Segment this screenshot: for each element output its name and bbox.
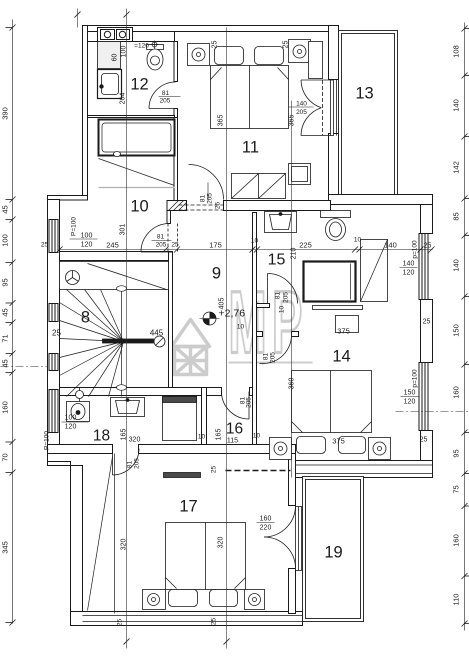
nightstand room17 right bbox=[245, 590, 265, 610]
door D11 threshold dashed bbox=[179, 204, 224, 206]
svg-text:P=100: P=100 bbox=[71, 217, 78, 236]
wall landing top bbox=[60, 252, 173, 261]
wall room17 east bbox=[289, 454, 296, 506]
big diagonal door room17 bbox=[88, 457, 113, 611]
ticks dim left bbox=[6, 25, 16, 626]
middle chain labels bbox=[106, 237, 397, 250]
wall east wing bottom bbox=[296, 461, 433, 478]
right chain labels bbox=[452, 45, 461, 605]
wall top main bbox=[83, 26, 339, 32]
svg-text:225: 225 bbox=[299, 241, 312, 250]
closet top right room11 bbox=[309, 42, 323, 79]
svg-text:140: 140 bbox=[384, 241, 397, 250]
box 375 room14 bbox=[336, 316, 359, 333]
sink room12 bbox=[98, 70, 122, 99]
wall left lower room17 bbox=[71, 466, 83, 616]
svg-text:345: 345 bbox=[1, 541, 10, 554]
svg-text:100: 100 bbox=[81, 233, 93, 240]
terrace 19 border bbox=[303, 477, 364, 622]
svg-text:25: 25 bbox=[52, 329, 61, 338]
wall step bottom-left bbox=[48, 454, 71, 466]
tv cabinet room14 bbox=[304, 262, 356, 302]
pillow room17 right bbox=[210, 590, 238, 607]
svg-text:8: 8 bbox=[81, 309, 90, 327]
ticks dim right bbox=[462, 26, 469, 627]
extension top x77 bbox=[77, 9, 79, 28]
svg-text:445: 445 bbox=[150, 329, 164, 338]
svg-text:220: 220 bbox=[260, 525, 272, 532]
left chain labels bbox=[1, 107, 10, 554]
nightstand room17 left bbox=[143, 590, 166, 610]
wall bottom room17 bbox=[71, 612, 303, 626]
toilet room18 bbox=[67, 402, 90, 422]
window W1 left bbox=[49, 220, 58, 253]
svg-text:10: 10 bbox=[237, 324, 245, 331]
svg-text:120: 120 bbox=[404, 399, 416, 406]
wall room17 top bbox=[48, 445, 113, 454]
svg-text:301: 301 bbox=[120, 224, 127, 236]
wall 9/14 stubs bbox=[257, 332, 263, 337]
door D17 terrace double arcs bbox=[264, 506, 296, 538]
door D14 arc bbox=[260, 333, 292, 364]
toilet room15 bbox=[321, 211, 351, 241]
bed room14 bbox=[292, 371, 372, 433]
flue block bbox=[98, 28, 133, 42]
svg-text:60: 60 bbox=[112, 54, 119, 62]
svg-text:142: 142 bbox=[452, 161, 461, 174]
dashdot section left bbox=[1, 366, 48, 368]
svg-text:25: 25 bbox=[283, 41, 290, 49]
window E2 right bbox=[419, 363, 428, 431]
wall east wing top bbox=[329, 195, 433, 205]
dim chain horizontal middle bbox=[60, 249, 433, 251]
shower tray room12 bbox=[98, 42, 121, 69]
svg-text:25: 25 bbox=[424, 243, 432, 250]
svg-text:205: 205 bbox=[160, 98, 171, 105]
nightstand room11 right bbox=[289, 40, 311, 63]
svg-text:25: 25 bbox=[117, 619, 124, 627]
window W2 left stair bbox=[49, 304, 58, 322]
svg-text:81: 81 bbox=[263, 353, 270, 361]
watermark letters MP bbox=[229, 273, 308, 371]
svg-text:9: 9 bbox=[212, 265, 221, 283]
door D11 arc bbox=[189, 165, 224, 200]
svg-text:165: 165 bbox=[216, 429, 223, 441]
wall left middle bbox=[48, 200, 60, 454]
wall top thick part left bbox=[88, 32, 175, 42]
shelf room14 bbox=[313, 306, 363, 310]
outlet marker room10 bbox=[114, 152, 121, 157]
svg-text:11: 11 bbox=[242, 139, 259, 157]
svg-text:10: 10 bbox=[198, 434, 206, 441]
svg-text:10: 10 bbox=[253, 433, 261, 440]
svg-text:375: 375 bbox=[337, 327, 350, 336]
door D10 arc bbox=[141, 224, 169, 253]
svg-text:P=100: P=100 bbox=[44, 431, 51, 450]
svg-text:150: 150 bbox=[452, 324, 461, 337]
svg-text:120: 120 bbox=[403, 270, 415, 277]
wall stair top east bbox=[167, 211, 171, 224]
svg-text:81: 81 bbox=[200, 195, 207, 203]
door D13 french doors bbox=[301, 79, 331, 81]
door17 terrace closed panels bbox=[296, 507, 302, 571]
door D15 leaf and arc bbox=[267, 274, 269, 304]
svg-text:205: 205 bbox=[283, 292, 290, 303]
stair landing bbox=[60, 262, 169, 290]
svg-text:25: 25 bbox=[171, 242, 179, 249]
svg-text:365: 365 bbox=[218, 115, 225, 127]
stair handrail bbox=[103, 336, 166, 347]
washbasin room15 bbox=[265, 212, 297, 233]
wall east wing right bbox=[421, 205, 433, 234]
wall 15 south stub bbox=[257, 304, 270, 308]
svg-text:264: 264 bbox=[120, 93, 127, 105]
wall room12 right bbox=[174, 42, 178, 82]
wardrobe room11 bbox=[232, 174, 286, 199]
ticks dim middle bbox=[57, 247, 435, 253]
toilet room12 bbox=[147, 45, 164, 71]
svg-text:95: 95 bbox=[452, 449, 461, 457]
svg-text:365: 365 bbox=[289, 115, 296, 127]
overhang dashed line bbox=[226, 470, 291, 472]
svg-text:12: 12 bbox=[130, 76, 148, 94]
svg-text:16: 16 bbox=[226, 421, 243, 438]
svg-text:245: 245 bbox=[106, 241, 119, 250]
terrace 13 border bbox=[339, 31, 398, 195]
svg-text:25: 25 bbox=[211, 466, 218, 474]
svg-text:45: 45 bbox=[1, 205, 10, 213]
svg-text:25: 25 bbox=[41, 242, 49, 249]
svg-text:81: 81 bbox=[157, 234, 165, 241]
wall room12 bottom bbox=[88, 116, 175, 118]
bed room17 bbox=[166, 523, 246, 590]
door D12 arc bbox=[149, 82, 176, 109]
svg-text:19: 19 bbox=[324, 544, 342, 562]
svg-text:25: 25 bbox=[420, 437, 428, 444]
radiator room11 bbox=[289, 164, 311, 185]
svg-text:375: 375 bbox=[332, 437, 345, 446]
stair treads fan bbox=[60, 290, 124, 397]
pillow room14 right bbox=[339, 437, 366, 454]
pillow room14 left bbox=[297, 437, 326, 454]
svg-text:25: 25 bbox=[423, 319, 431, 326]
wall stair right bbox=[169, 252, 173, 397]
svg-text:205: 205 bbox=[296, 109, 307, 116]
wall right main upper bbox=[329, 26, 339, 80]
svg-text:81: 81 bbox=[162, 90, 170, 97]
svg-text:175: 175 bbox=[209, 241, 222, 250]
svg-text:140: 140 bbox=[452, 99, 461, 112]
svg-text:10: 10 bbox=[279, 306, 286, 314]
svg-text:10: 10 bbox=[130, 198, 148, 216]
nightstand room14 left bbox=[270, 438, 292, 460]
window W4 left room18 bbox=[49, 390, 58, 433]
svg-text:205: 205 bbox=[156, 242, 167, 249]
svg-text:150: 150 bbox=[404, 390, 416, 397]
svg-text:71: 71 bbox=[1, 334, 10, 342]
svg-text:160: 160 bbox=[452, 534, 461, 547]
svg-text:17: 17 bbox=[179, 498, 197, 516]
pillow room11 left bbox=[215, 47, 244, 65]
svg-text:210: 210 bbox=[291, 248, 298, 260]
tv bar room17 bbox=[164, 473, 201, 478]
svg-text:10: 10 bbox=[354, 237, 362, 244]
bed room11 bbox=[211, 66, 289, 129]
dim line left bbox=[12, 20, 14, 624]
svg-text:160: 160 bbox=[452, 386, 461, 399]
wardrobe 18/16 bbox=[163, 397, 197, 441]
wall 16 west bbox=[202, 388, 207, 445]
svg-text:205: 205 bbox=[246, 397, 253, 408]
svg-text:140: 140 bbox=[296, 101, 307, 108]
svg-text:14: 14 bbox=[332, 348, 350, 366]
svg-text:95: 95 bbox=[1, 278, 10, 286]
wall 10/11 bbox=[174, 118, 178, 201]
wall bottom of 9 / top of 16-18 bbox=[60, 388, 222, 396]
window plus symbol bbox=[151, 41, 159, 49]
svg-text:120: 120 bbox=[81, 242, 93, 249]
sink room18 bbox=[111, 398, 145, 417]
nightstand room11 left bbox=[188, 44, 210, 66]
svg-text:100: 100 bbox=[121, 46, 128, 58]
wall left upper bbox=[83, 26, 88, 200]
svg-text:70: 70 bbox=[1, 453, 10, 461]
svg-text:45: 45 bbox=[1, 359, 10, 367]
level marker +2,76 bbox=[200, 308, 246, 326]
room10 slope diagonal bbox=[99, 159, 175, 186]
svg-text:81: 81 bbox=[127, 461, 134, 469]
svg-text:p=100: p=100 bbox=[412, 240, 419, 259]
wall step left bbox=[48, 196, 88, 201]
door D16 arc bbox=[222, 392, 250, 420]
svg-text:100: 100 bbox=[65, 415, 77, 422]
svg-text:15: 15 bbox=[268, 252, 286, 269]
svg-text:45: 45 bbox=[1, 308, 10, 316]
svg-text:405: 405 bbox=[219, 298, 226, 310]
line left of bed room17 bbox=[114, 454, 116, 614]
window W3 left stair bbox=[49, 354, 58, 371]
partition 9/15 and 16/14 bbox=[253, 213, 257, 445]
section line x291 bbox=[291, 101, 293, 478]
svg-text:18: 18 bbox=[93, 428, 110, 445]
svg-text:115: 115 bbox=[227, 438, 238, 445]
bathtub room10 bbox=[99, 120, 175, 156]
door axis symbol room18 bbox=[76, 388, 84, 402]
svg-text:360: 360 bbox=[289, 378, 296, 390]
nightstand room14 right bbox=[369, 438, 391, 460]
stair walking line bbox=[117, 286, 127, 397]
dim line right bbox=[464, 23, 466, 631]
svg-text:160: 160 bbox=[1, 401, 10, 414]
svg-text:13: 13 bbox=[355, 85, 373, 103]
svg-text:160: 160 bbox=[260, 516, 272, 523]
pillow room17 left bbox=[169, 590, 198, 607]
misc labels bbox=[41, 41, 432, 627]
shower closet room14 bbox=[361, 240, 388, 302]
svg-text:p=100: p=100 bbox=[412, 369, 419, 388]
svg-text:390: 390 bbox=[1, 107, 10, 120]
svg-text:25: 25 bbox=[211, 618, 218, 626]
svg-text:165: 165 bbox=[121, 429, 128, 441]
svg-text:140: 140 bbox=[452, 259, 461, 272]
svg-text:320: 320 bbox=[218, 537, 225, 549]
fraction bars bbox=[159, 96, 181, 98]
svg-text:25: 25 bbox=[215, 202, 222, 210]
svg-text:120: 120 bbox=[65, 424, 77, 431]
room10 slope gray line bbox=[99, 187, 175, 189]
watermark house logo bbox=[172, 320, 210, 375]
dashdot section right bbox=[396, 411, 469, 413]
svg-text:110: 110 bbox=[452, 594, 461, 606]
svg-text:=120: =120 bbox=[134, 43, 149, 50]
door D18 arc bbox=[113, 449, 140, 476]
wall corridor top (9/11) bbox=[167, 201, 187, 211]
svg-text:140: 140 bbox=[403, 261, 415, 268]
svg-text:108: 108 bbox=[452, 45, 461, 58]
svg-text:205: 205 bbox=[270, 352, 277, 363]
svg-text:25: 25 bbox=[212, 41, 219, 49]
section line x126 bbox=[126, 9, 128, 649]
svg-text:85: 85 bbox=[452, 212, 461, 220]
svg-text:100: 100 bbox=[1, 234, 10, 247]
section line x226 bbox=[226, 28, 228, 649]
window E1 right bbox=[419, 234, 428, 300]
svg-text:75: 75 bbox=[452, 485, 461, 493]
svg-text:10: 10 bbox=[251, 238, 259, 245]
svg-text:205: 205 bbox=[207, 193, 214, 204]
svg-text:205: 205 bbox=[134, 458, 141, 469]
svg-text:81: 81 bbox=[275, 292, 282, 300]
pillow room11 right bbox=[255, 47, 284, 65]
svg-text:320: 320 bbox=[121, 539, 128, 551]
svg-text:320: 320 bbox=[129, 437, 141, 444]
